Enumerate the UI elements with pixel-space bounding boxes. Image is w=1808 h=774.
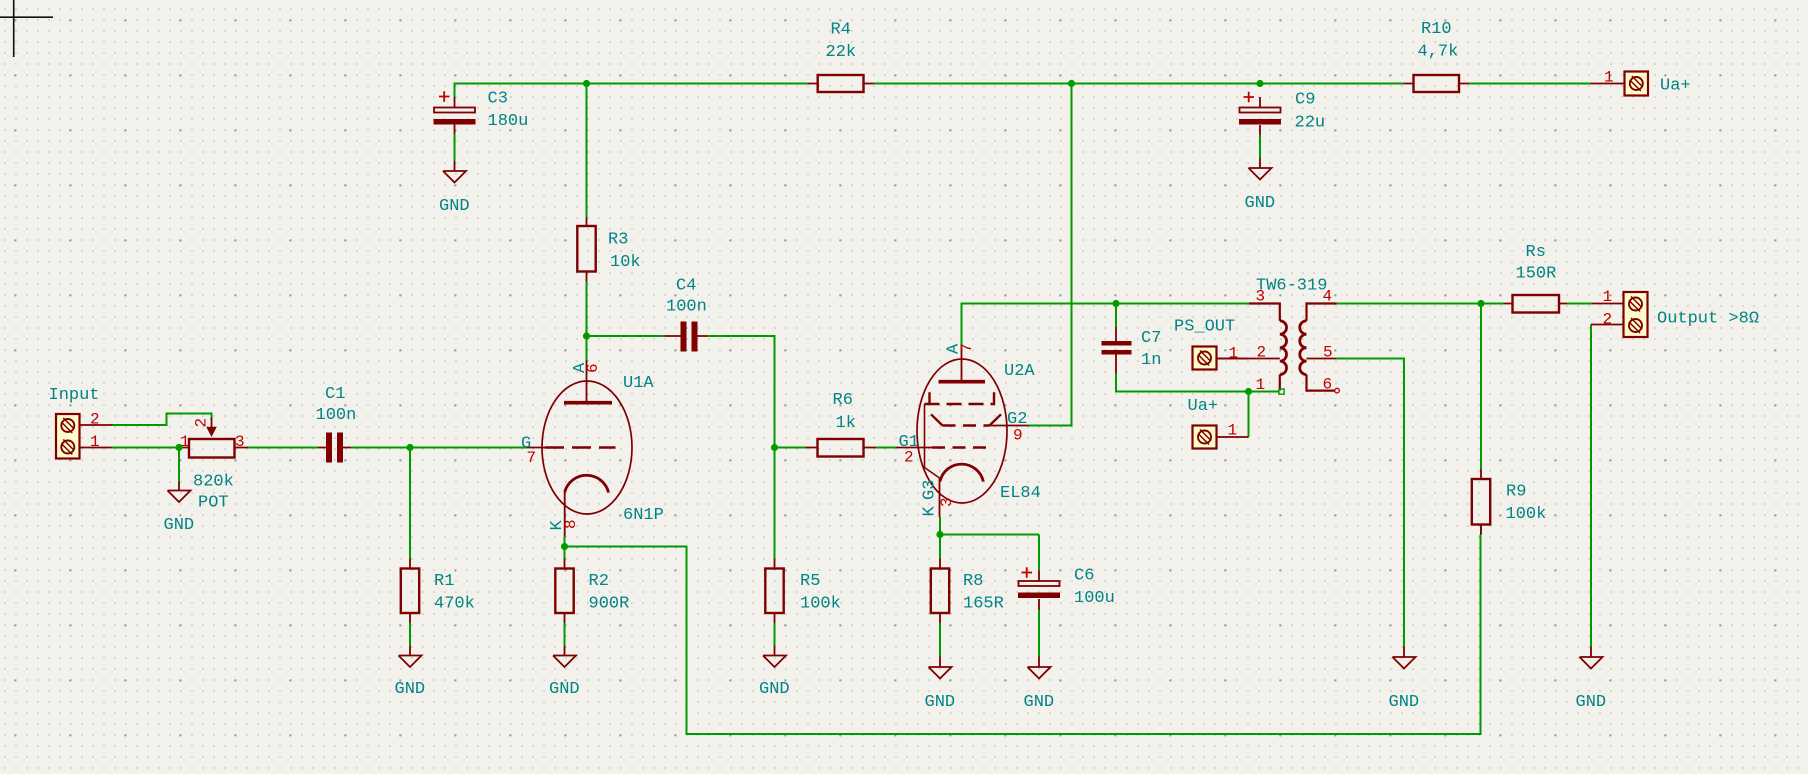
ground R1 [399,646,422,668]
svg-text:470k: 470k [434,595,475,614]
resistor R8 165R [931,559,1004,624]
svg-text:1n: 1n [1141,351,1161,370]
svg-text:C1: C1 [325,385,345,404]
svg-text:EL84: EL84 [1000,484,1041,503]
resistor R2 900R [555,559,629,624]
svg-text:R2: R2 [589,572,609,591]
svg-text:Input: Input [49,386,100,405]
wire R3 bottom to anode node [586,282,588,337]
wire Rs to output [1567,303,1592,305]
junction Ua plus node [1245,388,1252,395]
svg-text:GND: GND [1576,693,1607,712]
svg-text:100k: 100k [1506,505,1547,524]
resistor R9 100k [1472,469,1547,535]
svg-text:1: 1 [90,433,100,451]
svg-text:R6: R6 [833,391,853,410]
svg-text:U1A: U1A [623,374,654,393]
ground R5 [763,646,786,668]
svg-text:8: 8 [562,519,580,529]
wire U2A cathode to node [939,517,941,535]
svg-text:Output >8Ω: Output >8Ω [1657,310,1759,329]
wire top rail left [455,84,809,98]
resistor R5 100k [765,559,841,624]
junction U2A cathode node [936,531,943,538]
junction input pot [175,444,182,451]
svg-text:1: 1 [180,433,190,451]
wire C7 bottom to Ua node [1116,373,1279,392]
capacitor C6 100u polarized [1018,567,1115,611]
wire R5 top [774,448,776,559]
ground transformer secondary [1393,647,1416,669]
transformer TR1 TW6-319 [1217,277,1340,395]
svg-text:R4: R4 [831,21,851,40]
svg-text:R8: R8 [963,572,983,591]
capacitor C7 1n [1102,327,1162,373]
svg-text:4: 4 [1323,288,1333,306]
svg-text:2: 2 [1257,344,1267,362]
svg-text:R3: R3 [608,231,628,250]
connector PS_OUT [1174,318,1249,370]
wire Ua node to Ua terminal [1248,392,1250,438]
resistor R6 1k [806,391,877,457]
resistor R3 10k [577,218,640,282]
wire C3 to ground [454,134,456,161]
wire R9 bottom [1480,525,1482,535]
junction R1 node [406,444,413,451]
svg-text:4,7k: 4,7k [1418,43,1459,62]
svg-text:7: 7 [958,343,976,353]
svg-text:R10: R10 [1421,20,1452,39]
svg-text:150R: 150R [1516,265,1557,284]
ground R2 [553,646,576,668]
wire feedback cathode run [565,535,1481,735]
unconnected pin 6 circle [1335,388,1340,393]
wire C1 to U1A grid [351,447,526,449]
svg-text:1k: 1k [836,414,856,433]
capacitor C9 22u polarized [1239,91,1325,136]
ground C3 [443,161,466,183]
junction anode node [583,332,590,339]
svg-text:2: 2 [193,418,211,428]
wire transformer pin4 to Rs node [1337,303,1482,305]
svg-text:3: 3 [938,497,956,507]
wire U2A anode run [962,304,1250,349]
resistor R10 4,7k [1404,20,1470,92]
wire R9 top [1480,304,1482,470]
wire cathode node to C6 [940,535,1039,571]
wire transformer pin5 to ground [1337,359,1405,647]
wire top rail middle [874,83,1404,85]
junction Rs R9 node [1477,300,1484,307]
svg-text:7: 7 [527,449,537,467]
svg-text:C6: C6 [1074,567,1094,586]
svg-text:R9: R9 [1506,483,1526,502]
svg-text:2: 2 [1603,311,1613,329]
svg-text:GND: GND [549,680,580,699]
svg-text:U2A: U2A [1004,362,1035,381]
resistor R1 470k [401,559,475,624]
unconnected wire end square [1279,389,1284,394]
wire input pin1 to pot [112,447,184,449]
junction rail C9 [1256,80,1263,87]
wire anode node to C4 [587,335,665,337]
svg-text:3: 3 [1256,288,1266,306]
wire R2 top [564,547,566,559]
capacitor C1 100n [316,385,357,463]
resistor R4 22k [808,21,874,93]
wire C4 to R5 R6 node [708,336,775,448]
resistor Rs 150R [1504,243,1568,313]
ground output [1580,647,1603,669]
svg-text:C3: C3 [488,90,508,109]
wire C7 top [1115,304,1117,328]
wire C6 bottom [1038,610,1040,657]
svg-text:100n: 100n [666,298,707,317]
svg-text:POT: POT [198,494,229,513]
wire R3 top [586,84,588,218]
connector Ua+ middle [1188,397,1249,449]
svg-text:C4: C4 [676,277,696,296]
GROUNDS [168,158,1603,679]
junction R5 R6 node [771,444,778,451]
wire pot to C1 [248,447,318,449]
junction C7 anode run [1112,300,1119,307]
svg-text:GND: GND [759,680,790,699]
wire R2 bottom [564,623,566,646]
wire R5 bottom [774,623,776,646]
svg-text:R5: R5 [800,572,820,591]
svg-text:6: 6 [1323,376,1333,394]
capacitor C3 180u polarized [434,90,529,135]
svg-text:GND: GND [1024,693,1055,712]
wire pot node to ground [178,448,180,482]
svg-text:6: 6 [584,363,602,373]
svg-text:180u: 180u [488,112,529,131]
capacitor C4 100n [665,277,709,352]
svg-text:1: 1 [1228,422,1238,440]
svg-text:2: 2 [90,411,100,429]
svg-text:3: 3 [235,433,245,451]
svg-text:6N1P: 6N1P [623,506,664,525]
svg-text:C7: C7 [1141,329,1161,348]
svg-text:GND: GND [395,680,426,699]
connector J1 Input [49,386,113,459]
junction rail R3 [583,80,590,87]
junction U1A cathode node [561,543,568,550]
svg-text:10k: 10k [610,253,641,272]
connector Ua+ top right [1591,69,1691,96]
wire C9 to ground [1259,135,1261,158]
potentiometer RV1 820k POT [180,418,248,513]
svg-text:GND: GND [439,197,470,216]
wire output pin2 to ground [1590,325,1592,647]
tube U2A EL84 pentode [896,343,1041,517]
svg-text:GND: GND [1245,194,1276,213]
svg-text:100u: 100u [1074,589,1115,608]
svg-text:K: K [921,506,940,517]
svg-text:9: 9 [1013,427,1023,445]
tube U1A 6N1P triode [521,360,664,537]
svg-text:R1: R1 [434,572,454,591]
svg-text:900R: 900R [589,595,630,614]
ground C6 [1028,657,1051,679]
svg-text:Ua+: Ua+ [1188,397,1219,416]
ground pot [168,482,191,503]
ground R8 [929,657,952,679]
wire R1 top [409,448,411,559]
wire input pin2 to pot wiper [112,414,212,426]
wire R8 top [939,535,941,559]
svg-text:GND: GND [925,693,956,712]
svg-text:100n: 100n [316,406,357,425]
wire R1 bottom [409,623,411,646]
wire R5 node to R6 [775,447,806,449]
svg-text:5: 5 [1323,344,1333,362]
svg-text:1: 1 [1604,69,1614,87]
wire R8 bottom [939,623,941,657]
svg-text:22k: 22k [826,43,857,62]
wire U1A cathode to node [564,537,566,547]
wire top rail right [1469,83,1591,85]
svg-text:22u: 22u [1295,114,1326,133]
svg-text:GND: GND [1389,693,1420,712]
svg-text:820k: 820k [193,473,234,492]
svg-text:PS_OUT: PS_OUT [1174,318,1235,337]
svg-text:165R: 165R [963,595,1004,614]
wire U2A g2 to rail [1029,84,1072,426]
svg-text:2: 2 [904,449,914,467]
svg-text:C9: C9 [1295,91,1315,110]
wire U1A anode [586,336,588,360]
svg-text:TW6-319: TW6-319 [1256,277,1327,296]
svg-text:100k: 100k [800,595,841,614]
svg-text:1: 1 [1229,345,1239,363]
svg-text:1: 1 [1603,288,1613,306]
junction rail g2 [1068,80,1075,87]
svg-text:GND: GND [164,516,195,535]
svg-text:Ua+: Ua+ [1660,77,1691,96]
wire R6 to U2A grid1 [876,447,896,449]
connector Output [1591,288,1759,337]
svg-text:Rs: Rs [1526,243,1546,262]
wire Rs node [1481,303,1504,305]
ground C9 [1249,158,1272,180]
svg-text:G3: G3 [921,480,940,500]
svg-text:1: 1 [1256,376,1266,394]
